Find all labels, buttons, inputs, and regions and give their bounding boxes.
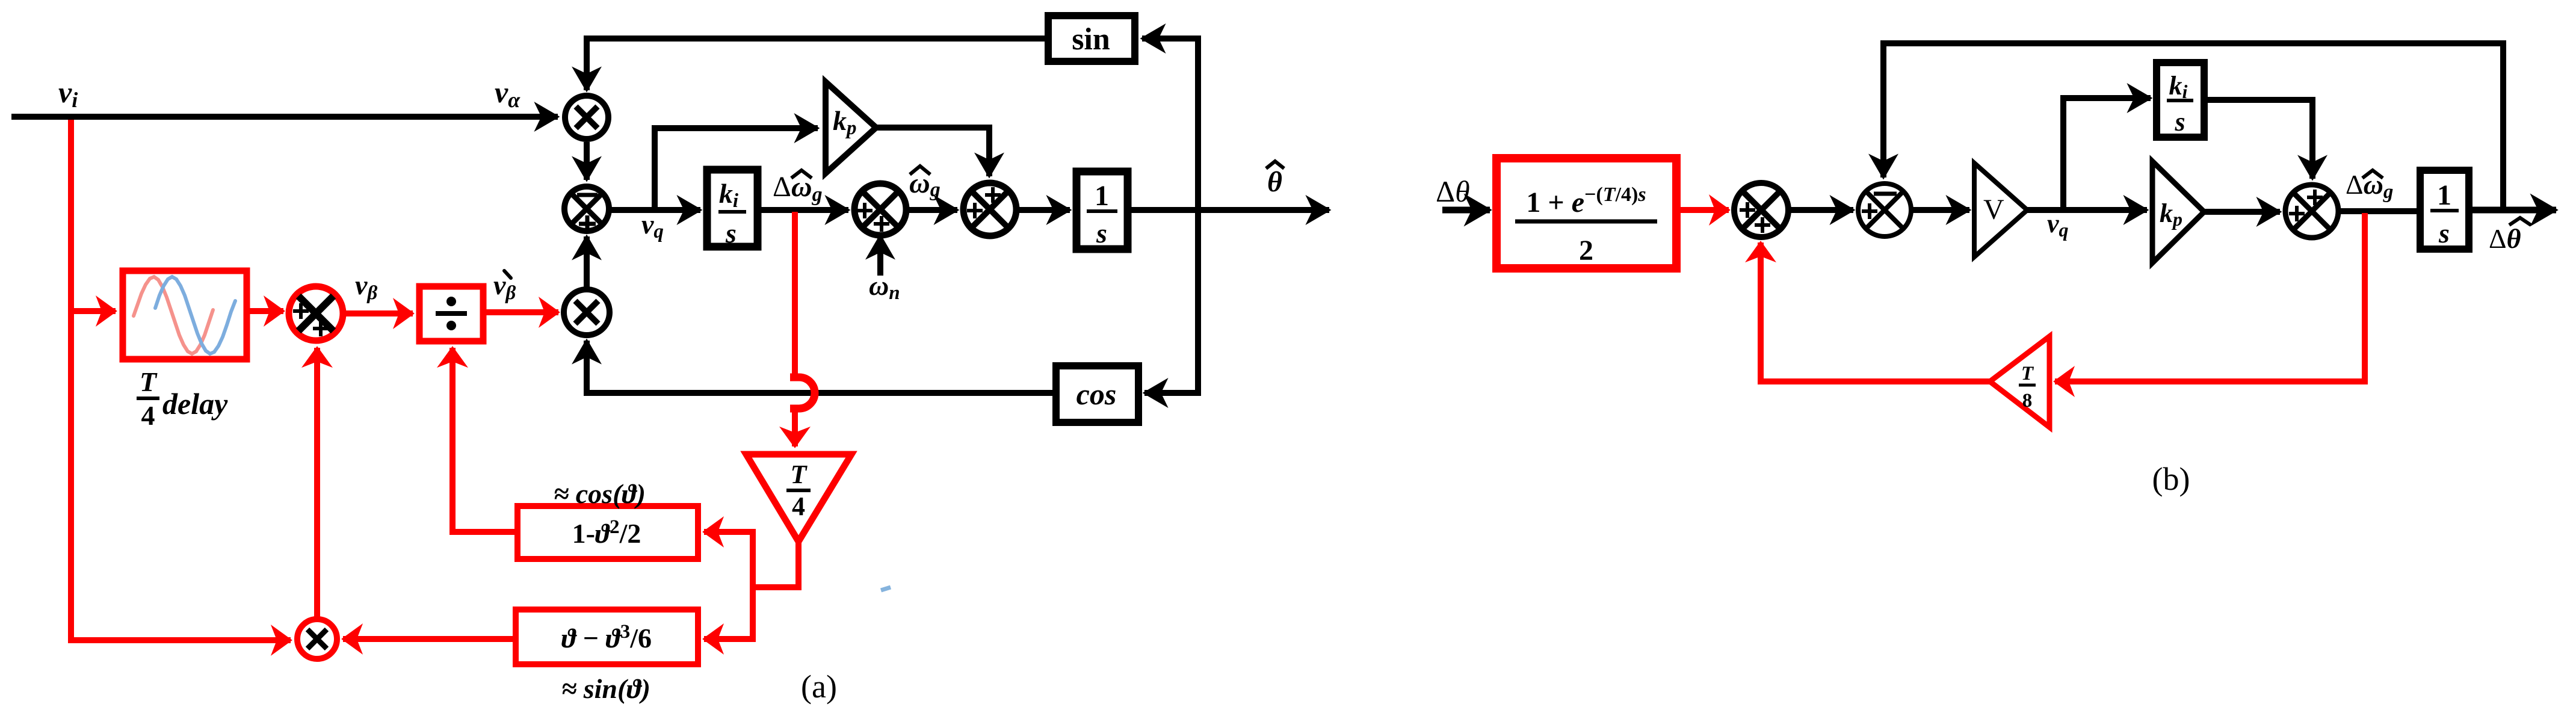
node v-beta label — [355, 270, 377, 304]
gain V triangle — [1974, 163, 2027, 257]
node vq label — [641, 209, 664, 242]
wire B1 to summer B2 — [1788, 207, 1853, 213]
node theta-hat label — [1266, 161, 1284, 198]
gain kp triangle — [826, 82, 876, 173]
wire cos-approx box to divider bottom — [452, 348, 517, 532]
integrator box 1/s — [1076, 171, 1128, 249]
svg-text:Δθ: Δθ — [2489, 223, 2521, 254]
svg-text:2: 2 — [1579, 235, 1593, 267]
summer SR red — [289, 286, 343, 341]
svg-text:cos: cos — [1076, 377, 1117, 411]
node v-beta-grave label — [493, 270, 516, 304]
node delta-theta-hat label — [2489, 218, 2531, 254]
wire red branch into delay block — [71, 308, 116, 314]
wire X1 to summer S1 — [584, 142, 590, 180]
integrator box ki/s — [707, 170, 758, 248]
gain T/4 triangle red — [746, 454, 851, 542]
wire red box to summer B1 — [1676, 207, 1729, 213]
wire S2 to S3 — [904, 207, 957, 213]
label (b) — [2152, 461, 2190, 497]
block cos — [1056, 366, 1138, 422]
summer S3 — [963, 183, 1016, 236]
node vq label — [2047, 209, 2069, 241]
summer S2 — [854, 184, 906, 235]
svg-text:s: s — [725, 218, 737, 248]
svg-text:V: V — [1983, 194, 2004, 226]
label approx sin — [561, 673, 650, 704]
svg-text:sin: sin — [1072, 22, 1110, 57]
multiplier M3 red — [297, 619, 337, 659]
wire T/4 to sin-approx box — [704, 587, 753, 639]
svg-text:≈ cos(ϑ): ≈ cos(ϑ) — [554, 478, 646, 509]
wire top feedback to B2 — [1883, 43, 2503, 210]
node omega-n label — [869, 270, 900, 304]
wire sin feedback to multiplier X1 — [587, 39, 1048, 90]
svg-text:(a): (a) — [801, 668, 837, 705]
block sin — [1048, 16, 1135, 61]
wire cos to multiplier M2 — [587, 341, 1056, 393]
wire omega-n input — [877, 236, 883, 276]
multiplier M2 — [564, 289, 610, 335]
wire vi input line — [11, 114, 558, 120]
svg-text:T: T — [2021, 363, 2034, 384]
wire red pickoff to T/8 gain — [2055, 213, 2365, 381]
wire V to kp gain — [2027, 207, 2147, 213]
wire delta-theta-hat output — [2469, 207, 2556, 214]
node delta-omega-g-hat label — [2346, 169, 2393, 203]
svg-text:1: 1 — [1095, 180, 1109, 212]
block T/4 delay — [123, 271, 247, 359]
wire branch to ki/s — [2063, 98, 2151, 210]
wire T/8 to B1 bottom — [1761, 242, 1990, 381]
summer B1 — [1734, 183, 1788, 237]
node delta-theta input label — [1436, 174, 1470, 208]
wire T/4 to cos-approx box — [704, 532, 798, 587]
svg-text:4: 4 — [141, 400, 155, 431]
wire ki/s to summer S2 — [758, 207, 848, 213]
block divider — [419, 286, 483, 341]
wire S3 to integrator 1/s — [1016, 207, 1070, 213]
svg-text:θ: θ — [1267, 166, 1282, 198]
svg-text:s: s — [2174, 107, 2185, 137]
gain kp triangle — [2152, 161, 2204, 263]
wire ki/s to summer B3 — [2204, 100, 2312, 179]
svg-text:≈ sin(ϑ): ≈ sin(ϑ) — [561, 673, 650, 704]
label (a) — [801, 668, 837, 705]
integrator box ki/s — [2157, 63, 2204, 137]
wire theta-hat output — [1128, 207, 1329, 213]
wire M2 to S1 — [584, 236, 590, 288]
wire kp to B3 — [2204, 209, 2280, 215]
svg-text:s: s — [1096, 218, 1107, 248]
svg-text:(b): (b) — [2152, 461, 2190, 497]
svg-text:1: 1 — [2437, 179, 2451, 211]
svg-text:1-ϑ2/2: 1-ϑ2/2 — [572, 516, 641, 549]
wire divider to M2 — [483, 309, 558, 315]
wire red pickoff with hop to T/4 gain — [790, 212, 815, 446]
gain T/8 triangle red — [1990, 336, 2049, 427]
wire branch to kp gain — [655, 128, 818, 210]
svg-text:T: T — [791, 460, 808, 489]
integrator box 1/s — [2420, 170, 2469, 249]
block sin approximation — [516, 610, 698, 664]
svg-text:ϑ − ϑ3/6: ϑ − ϑ3/6 — [561, 621, 652, 653]
wire B2 to gain V — [1911, 207, 1969, 213]
node vi label — [58, 75, 78, 112]
label approx cos — [554, 478, 646, 509]
svg-text:8: 8 — [2022, 390, 2033, 412]
block delay transfer function red — [1496, 158, 1676, 268]
svg-text:T: T — [140, 366, 158, 397]
node v-alpha label — [495, 75, 520, 112]
block cos approximation — [517, 506, 698, 559]
stray blue dash — [881, 587, 891, 590]
wire delay to red summer SR — [247, 308, 283, 314]
wire kp to summer S3 — [876, 128, 989, 176]
node delta-omega-g label — [773, 170, 823, 206]
label T/4 delay — [137, 366, 228, 431]
wire S1 to ki/s box — [609, 207, 700, 213]
svg-text:delay: delay — [162, 387, 228, 421]
wire M3 to SR — [314, 348, 320, 619]
svg-text:s: s — [2438, 218, 2450, 248]
node omega-g-hat label — [909, 166, 941, 201]
wire delta-theta input — [1442, 207, 1490, 214]
svg-text:Δθ: Δθ — [1436, 174, 1470, 208]
svg-text:4: 4 — [792, 492, 805, 521]
summer B3 — [2285, 185, 2338, 238]
wire SR to divider — [343, 310, 413, 316]
summer B2 — [1858, 184, 1911, 236]
wire feedback down to sin and cos — [1142, 39, 1198, 393]
wire red main vertical from vi — [71, 120, 291, 640]
wire B3 to integrator 1/s — [2338, 208, 2420, 214]
wire sin-approx box to M3 — [343, 636, 516, 642]
multiplier X1 — [565, 96, 608, 139]
summer S1 — [564, 187, 609, 232]
